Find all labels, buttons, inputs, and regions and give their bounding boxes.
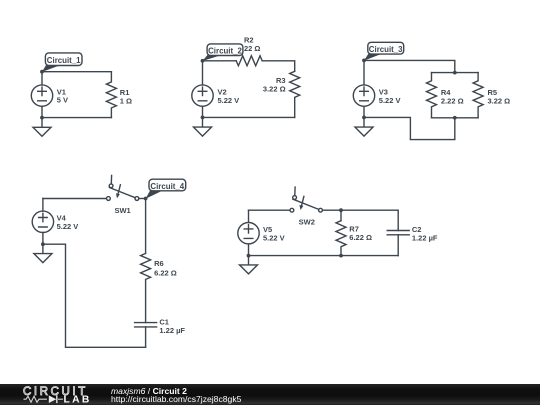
footer text line 1 [111, 387, 187, 395]
junction node circuit 4 [144, 197, 148, 201]
node Circuit_2 [203, 44, 243, 61]
wire V4 to SW1 [43, 198, 107, 200]
svg-text:3.22 Ω: 3.22 Ω [488, 96, 511, 105]
resistor R2 [236, 56, 262, 66]
ground circuit 5 [240, 256, 258, 274]
junction top node circuit 3 [362, 59, 366, 63]
value label R6 6.22 ohm [154, 259, 177, 277]
svg-text:5.22 V: 5.22 V [263, 234, 285, 243]
svg-text:V5: V5 [263, 225, 272, 234]
svg-text:22 Ω: 22 Ω [244, 44, 260, 53]
ground circuit 4 [34, 244, 52, 262]
svg-text:6.22 Ω: 6.22 Ω [154, 269, 177, 278]
svg-text:1.22 µF: 1.22 µF [159, 326, 185, 335]
resistor R7 [336, 221, 346, 256]
svg-text:1.22 µF: 1.22 µF [412, 234, 438, 243]
junction bottom node circuit 1 [40, 116, 44, 120]
wire SW2 to C2 top [322, 210, 398, 230]
svg-text:6.22 Ω: 6.22 Ω [349, 233, 372, 242]
wire node to R6 [145, 199, 147, 254]
svg-text:Circuit_3: Circuit_3 [369, 45, 403, 54]
svg-text:Circuit_1: Circuit_1 [47, 56, 81, 65]
switch SW1 [107, 175, 139, 200]
value label C2 1.22 uF [412, 225, 438, 242]
junction bottom node circuit 2 [201, 116, 205, 120]
wire R2 to top-right corner [262, 61, 295, 72]
wire return path circuit 3 [364, 117, 455, 139]
voltage source V2 [192, 61, 213, 118]
svg-text:SW1: SW1 [114, 206, 130, 215]
footer bar [0, 384, 540, 405]
value label V3 5.22 V [379, 88, 401, 105]
value label R2 22 ohm [244, 36, 260, 54]
wire parallel bottom rail [432, 117, 479, 119]
ground circuit 2 [194, 117, 212, 136]
junction R7 bottom [339, 254, 343, 258]
svg-text:SW2: SW2 [299, 217, 315, 226]
wire top rail circuit 3 [364, 60, 455, 72]
wire bottom rail circuit 5 [249, 255, 399, 257]
node Circuit_4 [146, 179, 186, 199]
svg-text:5.22 V: 5.22 V [218, 96, 240, 105]
wire top rail circuit 1 [42, 71, 111, 73]
value label V2 5.22 V [218, 88, 240, 105]
svg-text:Circuit_4: Circuit_4 [150, 182, 184, 191]
svg-text:1 Ω: 1 Ω [120, 96, 132, 105]
value label V5 5.22 V [263, 225, 285, 243]
value label V4 5.22 V [57, 214, 79, 232]
voltage source V3 [353, 60, 374, 117]
svg-text:LAB: LAB [64, 394, 92, 405]
value label C1 1.22 uF [159, 318, 185, 336]
svg-text:5.22 V: 5.22 V [57, 222, 79, 231]
wire R7 top lead [340, 210, 342, 221]
resistor R3 [290, 71, 300, 117]
value label R5 3.22 ohm [488, 88, 511, 106]
capacitor C1 [135, 323, 157, 348]
value label V1 5 V [57, 87, 68, 104]
capacitor C2 [387, 231, 409, 256]
junction V4 bottom [41, 242, 45, 246]
value label R7 6.22 ohm [349, 224, 372, 242]
value label R1 1 ohm [120, 88, 132, 106]
ground circuit 1 [33, 118, 51, 137]
svg-text:R7: R7 [349, 224, 359, 233]
svg-text:5 V: 5 V [57, 96, 68, 105]
ground circuit 3 [355, 117, 373, 136]
resistor R1 [106, 72, 116, 118]
wire V5 to SW2 [249, 209, 291, 211]
svg-text:3.22 Ω: 3.22 Ω [263, 84, 286, 93]
svg-text:R2: R2 [244, 36, 254, 45]
junction top node circuit 1 [40, 70, 44, 74]
wire parallel top rail [432, 72, 479, 74]
svg-text:Circuit_2: Circuit_2 [208, 47, 242, 56]
resistor R5 [473, 73, 483, 118]
wire top-left to R2 [203, 60, 237, 62]
wire bottom loop circuit 4 [43, 244, 146, 347]
value label R4 2.22 ohm [441, 88, 464, 106]
voltage source V5 [238, 210, 259, 255]
svg-text:2.22 Ω: 2.22 Ω [441, 96, 464, 105]
wire SW1 to node [139, 198, 146, 200]
footer text line 2 [111, 395, 241, 403]
voltage source V4 [32, 199, 53, 245]
svg-text:R6: R6 [154, 259, 164, 268]
node Circuit_3 [364, 42, 404, 60]
CircuitLab logo [0, 384, 110, 405]
svg-text:5.22 V: 5.22 V [379, 96, 401, 105]
junction V3 bottom [362, 116, 366, 120]
junction top node circuit 2 [201, 59, 205, 63]
junction V5 bottom [247, 254, 251, 258]
wire bottom rail circuit 2 [203, 116, 295, 118]
voltage source V1 [31, 72, 52, 118]
junction R7 top [339, 208, 343, 212]
junction parallel bottom circuit 3 [453, 116, 457, 120]
junction parallel top circuit 3 [453, 71, 457, 75]
switch SW2 [290, 187, 322, 212]
wire bottom rail circuit 1 [42, 117, 111, 119]
value label R3 3.22 ohm [263, 76, 286, 93]
resistor R4 [427, 73, 437, 118]
resistor R6 [141, 253, 151, 322]
node Circuit_1 [42, 53, 82, 72]
